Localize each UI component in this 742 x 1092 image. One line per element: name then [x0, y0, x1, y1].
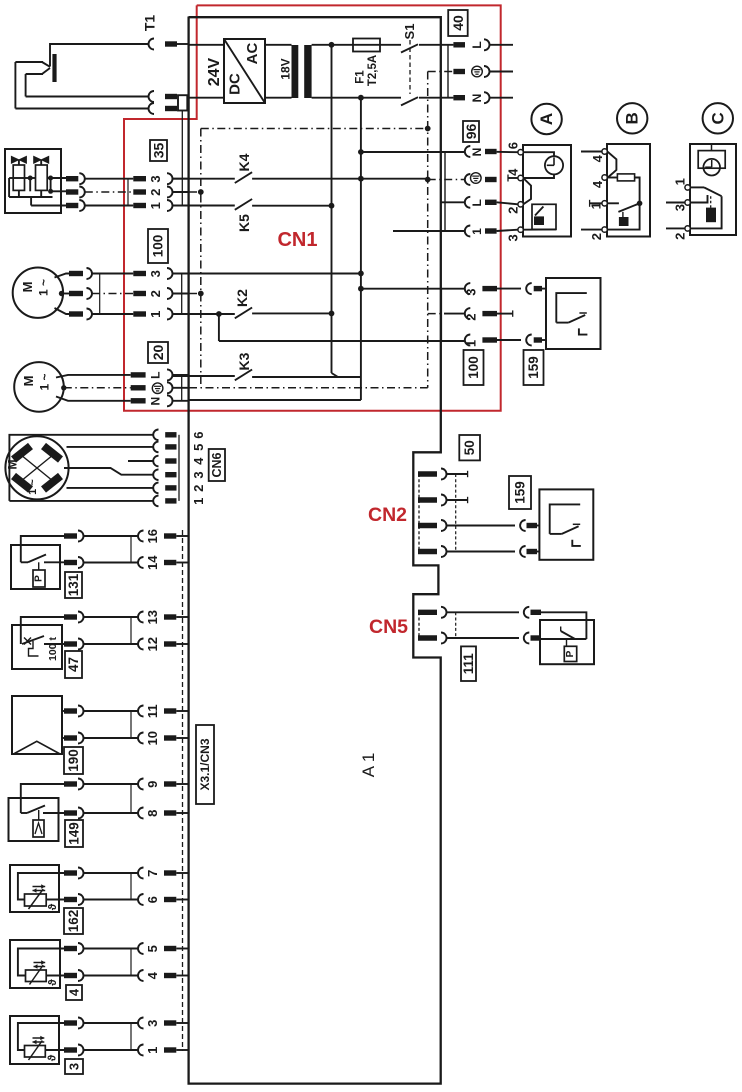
control terminal socket arc row earth — [465, 174, 470, 185]
diverter motor wire 1 (bottom of loop) — [9, 500, 152, 502]
CN6 socket arc pin 1 — [153, 496, 158, 507]
flow switch box (top) — [546, 278, 601, 349]
svg-text:190: 190 — [66, 749, 81, 772]
control A pin 2 — [518, 202, 523, 207]
switch S1 pole 2 blade — [401, 97, 418, 105]
svg-text:T2,5A: T2,5A — [367, 55, 379, 86]
svg-text:1: 1 — [145, 1047, 160, 1054]
gas valve cable plug pin dash (row y=178.7) — [66, 176, 78, 181]
stub X3.1-14 to board edge — [176, 562, 188, 564]
svg-text:B: B — [623, 112, 642, 124]
control A wire clock to pin4 — [523, 174, 554, 178]
sensor cable socket arc (y=784) — [78, 779, 84, 790]
CN6 pin dash 2 — [165, 485, 176, 490]
node: junction transformer top / bus V4 — [329, 42, 335, 48]
svg-text:4: 4 — [590, 154, 605, 162]
pressure sensor blade tick — [560, 627, 562, 632]
4 wire out — [46, 975, 64, 977]
svg-text:A 1: A 1 — [359, 753, 378, 778]
svg-text:159: 159 — [526, 356, 541, 379]
control B wire node to pin2 — [608, 203, 640, 229]
pump cable socket arc (y=273.5) — [87, 268, 93, 279]
flow switch plug arc row 1 — [526, 335, 532, 346]
node: K5 output junction on V4 — [329, 203, 335, 209]
3 wire top — [18, 1023, 64, 1050]
CN2 housing line (dashed) — [418, 474, 420, 552]
sensor cable wire (y=617) — [84, 616, 139, 618]
electrode loop mid wire — [26, 73, 43, 75]
svg-text:P: P — [34, 575, 45, 582]
CN6 pin dash 6 — [165, 432, 176, 437]
terminal pin dash 3 (100 group) — [482, 286, 497, 291]
T1 primary connector: pin dash — [165, 41, 177, 46]
svg-text:3: 3 — [67, 1063, 82, 1070]
svg-text:6: 6 — [505, 142, 520, 149]
sensor cable socket arc (y=738) — [78, 733, 84, 744]
PCB A1 outline — [189, 17, 441, 1084]
svg-text:6: 6 — [191, 431, 206, 438]
svg-text:N: N — [470, 148, 484, 157]
earth symbol X20 (circle with bars) — [152, 383, 163, 394]
svg-text:2: 2 — [589, 233, 604, 240]
control B resistor — [617, 174, 634, 181]
wire transformer bottom to switch S1 — [312, 97, 401, 99]
gas valve earth wire out — [51, 190, 66, 192]
stub X3.1-9 to board edge — [176, 783, 188, 785]
electrode loop left wire — [14, 62, 16, 109]
svg-text:CN5: CN5 — [369, 616, 408, 638]
terminal socket arc 3 (100 group) — [465, 283, 470, 294]
190 wire bottom — [62, 737, 64, 739]
node: earth bus junction at earth terminal row — [425, 177, 431, 183]
pump cable wire row 1 — [92, 313, 133, 315]
sensor cable plug dash (y=873) — [64, 870, 77, 875]
switch S1 pole 1 blade — [401, 44, 418, 52]
terminal strip bar (L-N group) — [447, 45, 449, 98]
gas valve cable group line — [127, 179, 129, 206]
water pressure switch box (131) — [11, 545, 60, 589]
131 P link — [38, 562, 40, 570]
svg-text:F1: F1 — [355, 70, 367, 84]
gas valve cable socket arc (row y=192) — [79, 187, 85, 198]
stub X3.1-1 to board edge — [176, 1049, 188, 1051]
gas valve cable plug pin dash (row y=192) — [66, 189, 78, 194]
spark gap arrow lower line — [42, 68, 50, 74]
sensor cable plug dash (y=644) — [64, 641, 77, 646]
svg-text:CN1: CN1 — [277, 229, 317, 251]
svg-text:T1: T1 — [142, 15, 158, 32]
diverter motor wire 2 — [67, 487, 153, 489]
board socket arc X3.1-8 — [138, 808, 144, 819]
pump live drop wire — [218, 314, 220, 341]
gas valve cable plug pin dash (row y=205.5) — [66, 203, 78, 208]
control B pin 4a — [602, 149, 607, 154]
svg-text:35: 35 — [151, 143, 167, 159]
board pin dash X3.1-1 — [164, 1047, 176, 1052]
board pin dash X3.1-5 — [164, 946, 176, 951]
bus V4 vertical (switched live) — [331, 45, 333, 373]
CN5 pin dash 2 — [418, 635, 437, 640]
wire S1 pole2 to terminal N — [419, 97, 453, 99]
terminal strip line (100 group) — [440, 289, 442, 340]
sensor cable socket arc (y=1050) — [78, 1045, 84, 1056]
terminal 2 stub end tick — [512, 310, 514, 316]
svg-text:96: 96 — [463, 124, 479, 140]
terminal block label 50 — [459, 435, 480, 460]
control C housing box — [690, 144, 736, 235]
svg-text:3: 3 — [673, 204, 688, 211]
electrode loop inner vertical wire — [25, 74, 27, 97]
board socket arc X3.1-4 — [138, 970, 144, 981]
sensor cable socket arc (y=617) — [78, 612, 84, 623]
svg-text:2: 2 — [464, 313, 479, 320]
flow switch symbol (bottom): contact tick — [573, 523, 580, 525]
relay K2 output wire — [252, 312, 331, 314]
pump wire top (to terminal 3) — [55, 274, 70, 278]
svg-text:14: 14 — [145, 555, 160, 570]
svg-text:50: 50 — [462, 440, 477, 455]
sensor cable plug dash (y=975.5) — [64, 973, 77, 978]
diverter motor X bar top-right — [44, 446, 61, 460]
board socket arc X3.1-3 — [138, 1018, 144, 1029]
162 wire out — [46, 899, 64, 901]
wire terminal N to control A pin 6 — [497, 151, 518, 153]
sensor cable wire (y=536) — [84, 535, 139, 537]
fuse F1 element line — [353, 44, 380, 46]
sensor cable socket arc (y=899.5) — [78, 894, 84, 905]
CN1 connector boundary (red outline) — [124, 5, 501, 410]
flow switch symbol (top): blade — [568, 315, 585, 323]
control A clock hand up — [553, 158, 555, 166]
flow switch symbol (bottom): blade — [562, 526, 579, 534]
svg-text:X3.1/CN3: X3.1/CN3 — [198, 738, 212, 790]
wire fuse to switch S1 — [380, 44, 401, 46]
190 wire top — [62, 710, 64, 712]
terminal N pin dash — [453, 95, 465, 100]
svg-text:2: 2 — [191, 485, 206, 492]
terminal L socket arc — [484, 39, 490, 50]
switch S1 mechanical link (dashed) — [409, 40, 411, 94]
board pin dash X3.1-13 — [164, 614, 176, 619]
CN5 group line (dashed) — [455, 612, 457, 638]
svg-text:12: 12 — [145, 637, 160, 651]
svg-text:3: 3 — [148, 175, 163, 182]
gas valve junction earth link — [50, 178, 52, 191]
node: V1 junction aux row — [358, 286, 364, 292]
131 P square — [33, 570, 45, 587]
CN6 socket arc pin 2 — [153, 483, 158, 494]
chassis frame dash-dot top edge — [201, 128, 428, 130]
svg-text:8: 8 — [145, 810, 160, 817]
sensor cable socket arc (y=562.5) — [78, 557, 84, 568]
control terminal pin dash row 1 — [485, 228, 497, 233]
electrode loop top wire — [15, 61, 43, 63]
control B switch blade — [618, 203, 639, 212]
board socket arc X20 row y=374.9 — [167, 369, 173, 380]
control A wire pin3 — [523, 228, 556, 230]
board socket arc X3.1-14 — [138, 557, 144, 568]
svg-text:1: 1 — [148, 202, 163, 209]
stub X3.1-16 to board edge — [176, 535, 188, 537]
relay K3 output wire to N bus V1 — [252, 376, 361, 378]
svg-text:7: 7 — [145, 870, 160, 877]
stub X20 row to board edge — [173, 400, 189, 402]
chassis frame dash-dot left bus — [200, 129, 202, 388]
CN2 socket arc 2 — [441, 495, 447, 506]
CN6 socket arc pin 5 — [153, 442, 158, 453]
pressure switch label box 131 — [65, 572, 82, 598]
svg-text:S1: S1 — [402, 24, 417, 40]
control terminal socket arc row 1 — [465, 226, 470, 237]
board pin dash X3.1-8 — [164, 810, 176, 815]
board socket arc X3.1-7 — [138, 868, 144, 879]
wire mains N from edge to AC/DC converter — [189, 97, 224, 99]
flow sensor box (149) — [9, 798, 59, 841]
stub X3.1-13 to board edge — [176, 616, 188, 618]
149 wire top — [21, 784, 64, 813]
4 arrows — [34, 962, 46, 964]
svg-text:2: 2 — [148, 189, 163, 196]
control C stub wire pin 2 — [666, 227, 685, 229]
pressure switch plug arc row 2 — [524, 633, 530, 644]
wire converter to transformer (bottom) — [265, 97, 292, 99]
connector X3.1/CN3 label box — [196, 725, 214, 804]
wire room-stat loop (terminal 1 row) — [219, 340, 465, 342]
pump cable wire row 3 — [92, 273, 133, 275]
control C clock hand left — [705, 166, 712, 168]
svg-text:1: 1 — [470, 228, 484, 235]
diverter motor wire 5 — [67, 446, 153, 448]
X3.1/CN3 strip line (dashed) — [182, 530, 184, 1051]
sensor cable wire (y=813) — [84, 812, 139, 814]
stub X35-3 to board edge — [173, 178, 189, 180]
stub X3.1-4 to board edge — [176, 975, 188, 977]
CN5 wire 1 to pressure switch plug — [447, 611, 520, 613]
3 wire out — [45, 1049, 64, 1051]
terminal socket arc 2 (100 group) — [465, 308, 470, 319]
earth row wire continuing to earth terminal — [361, 178, 428, 180]
bus V4 jog to K3 output row — [332, 373, 339, 377]
fan earth row dash-dot across board — [173, 387, 428, 389]
fuse F1 body — [353, 39, 380, 52]
CN2 pin dash 4 — [418, 549, 437, 554]
sensor cable plug dash (y=948.5) — [64, 946, 77, 951]
CN5 pin dash 1 — [418, 610, 437, 615]
diverter motor X bar bottom-right — [44, 476, 61, 490]
CN2 socket arc 4 — [441, 546, 447, 557]
terminal earth pin dash — [453, 69, 465, 74]
sensor cable group line (rows 784-813) — [130, 784, 132, 813]
control B pin 1 — [602, 201, 607, 206]
flow switch 159 label box (bottom) — [509, 476, 531, 509]
svg-text:4: 4 — [191, 457, 206, 465]
wire S1 pole1 to terminal L — [419, 44, 453, 46]
pump cable group line — [99, 274, 101, 315]
terminal 2 dash-dot link to earth bus — [428, 313, 444, 315]
gas valve coil2 bottom lead — [40, 190, 42, 197]
3 thermistor rect — [25, 1046, 46, 1058]
svg-text:ϑ: ϑ — [47, 979, 59, 986]
board socket arc X20 row y=387.8 — [167, 382, 173, 393]
162 arrows — [33, 886, 46, 888]
131 contact lead — [21, 561, 28, 563]
wire from T1 arc to spark electrode (top) — [50, 44, 149, 67]
board socket arc X3.1-12 — [138, 639, 144, 650]
node: K2 output junction on V4 — [329, 311, 335, 317]
stub X20 row to board edge — [173, 374, 189, 376]
svg-text:20: 20 — [150, 345, 166, 361]
4 thermistor rect — [26, 970, 47, 982]
stub X100-1 to board edge — [173, 313, 189, 315]
connector X100 label box — [148, 229, 168, 263]
pump earth row dash-dot into board — [173, 293, 201, 295]
svg-text:M: M — [20, 282, 35, 293]
board socket arc X3.1-16 — [138, 531, 144, 542]
board socket arc X35-2 — [167, 187, 173, 198]
fan L row wire to K3 — [173, 375, 189, 377]
47 wire out — [44, 643, 64, 645]
wire N bus to low-voltage terminal N — [361, 151, 465, 153]
T1 secondary connector arc (pin 1) — [149, 91, 155, 102]
svg-text:13: 13 — [145, 610, 160, 624]
control C stub wire pin 3 — [666, 202, 685, 204]
wire terminal earth external — [490, 71, 514, 73]
wire converter to transformer (top) — [265, 44, 292, 46]
gas valve 2 body (bowtie) — [34, 156, 49, 163]
node: gas valve junction 2 — [48, 176, 53, 181]
flow switch plug arc row 3 (CN2) — [520, 520, 526, 531]
stub X3.1-3 to board edge — [176, 1022, 188, 1024]
CN5 housing line (dashed) — [418, 612, 420, 638]
earth link dash-dot from S1 area — [428, 71, 454, 73]
control A demand blade — [535, 207, 543, 216]
diverter motor wire 6 (top loop) — [9, 435, 152, 501]
flow switch box (bottom) — [539, 489, 593, 559]
svg-text:131: 131 — [66, 573, 81, 596]
board pin dash X3.1-12 — [164, 641, 176, 646]
wire electrode return upper — [26, 96, 149, 98]
NTC label box 4 — [66, 985, 82, 1000]
control C indicator link (dashed) — [710, 196, 712, 207]
fan wire L — [56, 375, 131, 378]
149 coil link — [38, 810, 40, 820]
transformer 18V winding bar 2 — [304, 45, 311, 98]
sensor cable wire (y=644) — [84, 643, 139, 645]
board plug pin dash X35-1 — [133, 203, 146, 208]
sensor cable socket arc (y=813) — [78, 808, 84, 819]
terminal N socket arc — [484, 92, 490, 103]
board plug pin dash X100-1 — [133, 311, 146, 316]
wire terminal L external — [490, 44, 514, 46]
connector X20 label box — [148, 342, 168, 363]
node: pump earth node on circle — [59, 291, 64, 296]
relay K2 blade — [235, 308, 252, 319]
node: control B internal junction — [637, 201, 643, 207]
stub X3.1-11 to board edge — [176, 710, 188, 712]
board pin dash X3.1-7 — [164, 870, 176, 875]
spark gap arrow upper line — [42, 62, 50, 67]
sensor cable wire (y=1050) — [84, 1049, 139, 1051]
control terminal pin dash row N — [485, 149, 497, 154]
fan wire N — [56, 397, 131, 401]
CN2 pin dash 3 — [418, 523, 437, 528]
sensor cable group line (rows 1023-1050) — [130, 1023, 132, 1050]
CN5 wire 2 to pressure switch plug — [447, 637, 520, 639]
svg-text:3: 3 — [145, 1020, 160, 1027]
terminal block label 100 (right) — [464, 350, 484, 385]
control B stub tick pin1 — [589, 200, 591, 207]
svg-text:1: 1 — [672, 178, 687, 185]
pressure sensor P link — [566, 639, 568, 646]
sensor cable plug dash (y=1050) — [64, 1047, 77, 1052]
relay K4 blade — [235, 172, 252, 183]
control terminal pin dash row earth — [485, 177, 497, 182]
gas valve wiring: coil2 out — [47, 177, 66, 179]
wire terminal 1 to flow switch plug — [497, 339, 521, 341]
gas valve coil1 bottom lead — [18, 190, 20, 197]
svg-text:M: M — [6, 460, 20, 470]
CN5 socket arc 1 — [441, 607, 447, 618]
terminal L pin dash — [453, 42, 465, 47]
wire T1 primary into board edge — [177, 43, 189, 45]
control C clock hand up — [711, 160, 713, 167]
wire electrode return lower — [15, 108, 148, 110]
svg-text:K2: K2 — [234, 289, 250, 307]
svg-text:4: 4 — [145, 971, 160, 979]
stub X20 row to board edge — [173, 387, 189, 389]
terminal earth socket arc — [484, 66, 490, 77]
flow switch symbol (top): contact tick — [579, 312, 586, 314]
stub X35-1 to board edge — [173, 205, 189, 207]
flow switch symbol (top): bottom lead — [556, 322, 568, 324]
svg-text:149: 149 — [67, 822, 82, 845]
control A thermostat blade — [523, 178, 531, 204]
gas valve cable socket arc (row y=178.7) — [79, 173, 85, 184]
control A clock circle — [545, 156, 563, 174]
sensor cable socket arc (y=948.5) — [78, 943, 84, 954]
control C contact post pin3 — [691, 195, 708, 203]
terminal strip bar (control group) — [444, 152, 446, 232]
svg-text:100 t: 100 t — [47, 637, 59, 661]
svg-text:16: 16 — [145, 529, 160, 543]
sensor cable plug dash (y=536) — [64, 533, 77, 538]
4 wire top — [18, 949, 64, 976]
pump wire bottom (to terminal 1) — [55, 308, 70, 314]
AC/DC converter U1 box — [224, 39, 265, 103]
pump cable plug pin dash (y=314) — [69, 311, 83, 316]
connector CN6 label box — [209, 449, 225, 481]
node: earth bus junction pump earth — [198, 291, 204, 297]
svg-text:159: 159 — [513, 481, 528, 504]
control C wire pin1 row — [691, 186, 704, 188]
svg-text:24V: 24V — [206, 57, 223, 86]
connector strip line X20 — [181, 375, 183, 401]
svg-text:2: 2 — [148, 290, 163, 297]
CN6 pin dash 5 — [165, 444, 176, 449]
149 wire out — [43, 812, 64, 814]
control B pin 2 — [602, 227, 607, 232]
node: K4 output junction on V1 — [358, 176, 364, 182]
fan N return wire — [189, 399, 361, 401]
gas valve earth row dash-dot into board — [173, 191, 201, 193]
sensor cable plug dash (y=711) — [64, 708, 77, 713]
flow switch symbol (top): L contact — [579, 328, 588, 334]
CN2 stub wire 2 — [447, 499, 468, 501]
162 wire top — [18, 873, 64, 900]
stub X3.1-10 to board edge — [176, 737, 188, 739]
sensor cable wire (y=948.5) — [84, 948, 139, 950]
flow switch symbol (top): frame — [556, 293, 587, 323]
